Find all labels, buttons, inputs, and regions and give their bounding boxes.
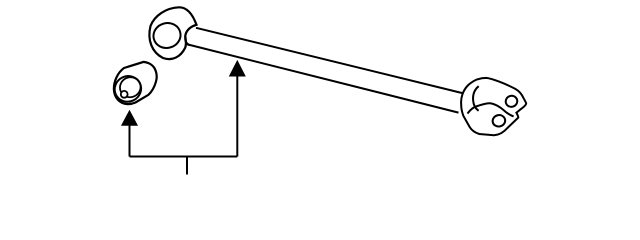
rod eye collar arc: [185, 25, 196, 46]
rod eye outer body (left end): [149, 7, 196, 59]
rod eye inner ring: [151, 20, 183, 51]
clevis bracket body (right end): [461, 78, 526, 135]
clevis lower hole: [492, 114, 507, 128]
wire: rod tube bottom edge: [186, 44, 459, 113]
bracket center tick: [186, 157, 188, 175]
arrow 2 shaft: [236, 75, 238, 157]
arrow 1 shaft: [129, 124, 131, 157]
clevis upper hole: [504, 94, 519, 108]
clevis lower lug top edge: [468, 103, 514, 116]
clevis inner fold curve: [473, 86, 479, 111]
bushing face ellipse: [110, 72, 145, 106]
bushing face inner rim: [117, 74, 144, 101]
wire: rod tube top edge: [196, 28, 464, 94]
arrow 2 head (under rod): [230, 61, 245, 76]
arrow 1 head (under bushing): [122, 111, 137, 126]
bracket horizontal line: [130, 156, 238, 158]
bushing bore: [121, 91, 128, 98]
bushing outer cylinder: [114, 62, 157, 104]
